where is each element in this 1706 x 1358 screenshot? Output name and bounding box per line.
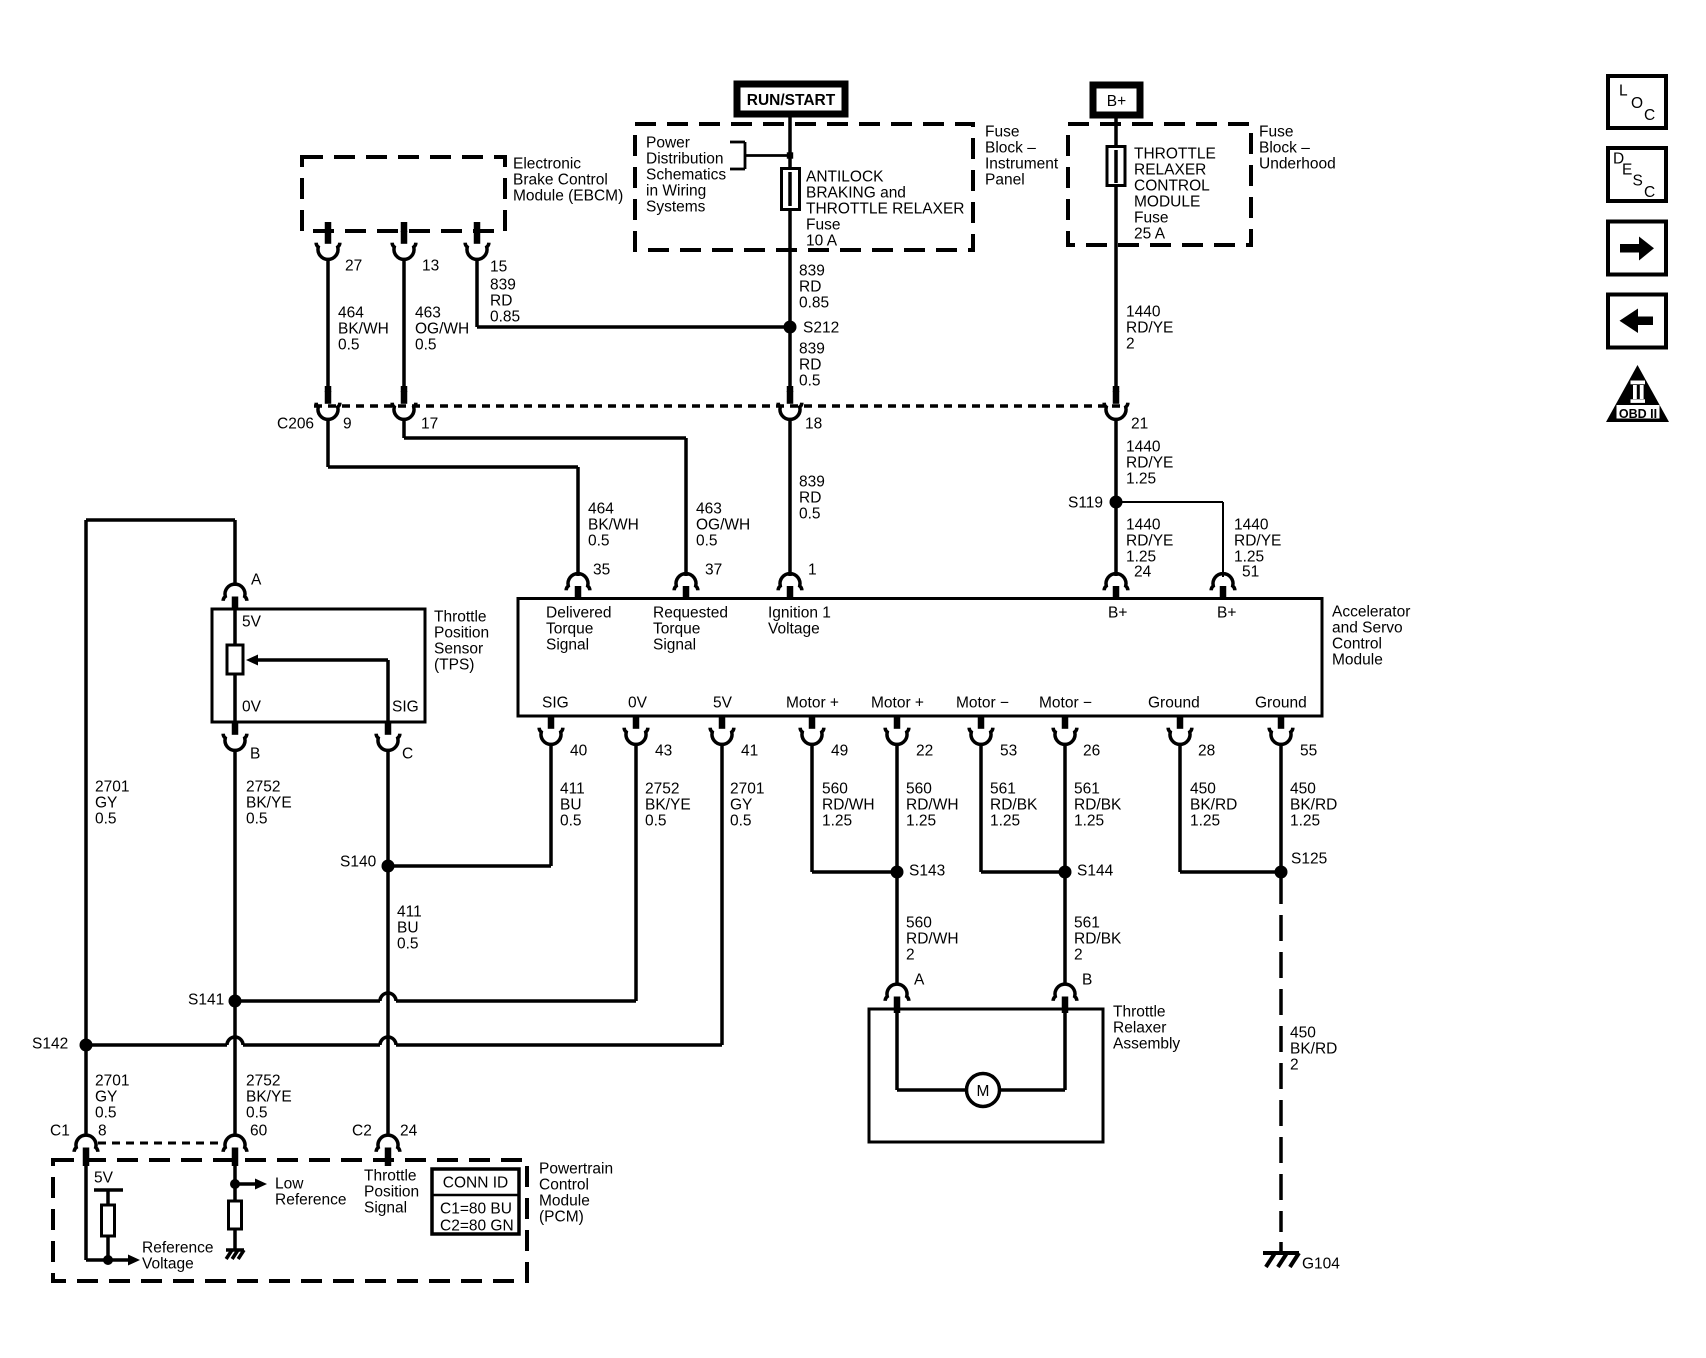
svg-text:560: 560 [822, 781, 848, 798]
module pin 41 connector [719, 716, 726, 729]
power symbol B+ (box) [1093, 85, 1140, 115]
wire 2752 BK/YE 0.5 pin43 to S141 [634, 744, 638, 1002]
svg-text:B: B [250, 746, 260, 763]
svg-text:1.25: 1.25 [822, 813, 852, 830]
svg-text:OG/WH: OG/WH [696, 517, 750, 534]
wire S142 to C1 [84, 1045, 88, 1134]
svg-text:0.5: 0.5 [645, 813, 667, 830]
svg-text:15: 15 [490, 259, 507, 276]
svg-text:35: 35 [593, 562, 610, 579]
svg-text:L: L [1619, 83, 1628, 100]
svg-text:13: 13 [422, 258, 439, 275]
svg-text:C2: C2 [352, 1123, 372, 1140]
svg-text:1.25: 1.25 [990, 813, 1020, 830]
svg-text:24: 24 [400, 1123, 418, 1140]
svg-text:49: 49 [831, 743, 848, 760]
Throttle Position Sensor (box) [212, 609, 425, 722]
svg-text:Sensor: Sensor [434, 641, 483, 658]
wire 560 RD/WH 1.25 pin22 to S143 [895, 744, 899, 873]
fuse F2 THROTTLE RELAXER CONTROL MODULE 25A [1107, 147, 1125, 186]
svg-text:(TPS): (TPS) [434, 657, 474, 674]
svg-text:Throttle: Throttle [364, 1168, 417, 1185]
splice S125 [1275, 866, 1288, 879]
svg-text:RD/BK: RD/BK [1074, 797, 1122, 814]
svg-text:RELAXER: RELAXER [1134, 162, 1206, 179]
module pin 26 connector [1062, 716, 1069, 729]
module pin 53 connector [978, 716, 985, 729]
wire S119 to module pin24 [1114, 502, 1118, 576]
svg-text:A: A [251, 572, 262, 589]
svg-text:51: 51 [1242, 564, 1259, 581]
power symbol RUN/START (box) [737, 84, 845, 114]
svg-text:1.25: 1.25 [906, 813, 936, 830]
svg-text:Panel: Panel [985, 172, 1025, 189]
svg-text:BK/YE: BK/YE [246, 1089, 292, 1106]
svg-text:53: 53 [1000, 743, 1017, 760]
svg-text:C1: C1 [50, 1123, 70, 1140]
svg-text:2752: 2752 [246, 779, 280, 796]
svg-text:S212: S212 [803, 320, 839, 337]
svg-text:37: 37 [705, 562, 722, 579]
svg-text:RD: RD [799, 490, 821, 507]
svg-text:40: 40 [570, 743, 588, 760]
C206 pin 9 connector [325, 386, 332, 392]
wire from C206-9 to module pin35 [326, 419, 330, 468]
wire 463 OG/WH 0.5 from EBCM pin13 [402, 259, 406, 392]
wire 1440 RD/YE 2 fuse to C206 [1114, 185, 1118, 391]
svg-text:450: 450 [1190, 781, 1216, 798]
svg-text:0V: 0V [628, 695, 648, 712]
svg-text:Motor +: Motor + [786, 695, 839, 712]
svg-text:BK/WH: BK/WH [338, 321, 389, 338]
svg-text:SIG: SIG [542, 695, 569, 712]
wire 561 RD/BK 2 S144 to relaxer pin B [1063, 872, 1067, 985]
svg-text:463: 463 [696, 501, 722, 518]
svg-text:RD/BK: RD/BK [990, 797, 1038, 814]
ground G104 [1263, 1251, 1299, 1255]
svg-text:Signal: Signal [653, 637, 696, 654]
svg-text:2: 2 [1290, 1057, 1299, 1074]
svg-text:25 A: 25 A [1134, 226, 1166, 243]
junction reference voltage [103, 1255, 113, 1265]
svg-text:24: 24 [1134, 564, 1152, 581]
svg-text:1.25: 1.25 [1290, 813, 1320, 830]
TPS wiper arrow [258, 658, 388, 662]
wire 561 RD/BK 1.25 pin26 to S144 [1063, 744, 1067, 873]
module pin 24 connector [1113, 586, 1120, 599]
wire 839 RD 0.85 from EBCM pin15 to S212 [475, 259, 479, 328]
svg-text:26: 26 [1083, 743, 1100, 760]
svg-text:Ground: Ground [1148, 695, 1200, 712]
svg-text:Electronic: Electronic [513, 156, 581, 173]
svg-text:55: 55 [1300, 743, 1317, 760]
svg-text:Reference: Reference [275, 1192, 347, 1209]
fuse block - underhood (dashed box) [1068, 124, 1251, 245]
svg-text:GY: GY [730, 797, 752, 814]
svg-text:1.25: 1.25 [1074, 813, 1104, 830]
wire 2701 GY 0.5 pin41 to S142 [720, 744, 724, 1046]
svg-text:839: 839 [799, 263, 825, 280]
wire 839 RD 0.85 fuse to S212 [788, 209, 792, 391]
connector C206 (dashed line) [314, 404, 1124, 408]
svg-text:10 A: 10 A [806, 233, 838, 250]
svg-text:41: 41 [741, 743, 758, 760]
svg-text:S140: S140 [340, 854, 377, 871]
junction low reference [230, 1179, 240, 1189]
svg-text:Motor −: Motor − [956, 695, 1009, 712]
EBCM pin 13 connector [401, 222, 408, 232]
svg-text:0.5: 0.5 [246, 811, 268, 828]
svg-text:0.85: 0.85 [799, 295, 829, 312]
svg-text:RD/WH: RD/WH [822, 797, 875, 814]
svg-text:C: C [402, 746, 413, 763]
svg-text:Ignition 1: Ignition 1 [768, 605, 831, 622]
svg-text:S: S [1633, 173, 1643, 190]
svg-text:RD: RD [490, 293, 512, 310]
svg-text:S141: S141 [188, 992, 224, 1009]
wire B+ to fuse [1114, 118, 1118, 147]
wire pin60 low reference [233, 1160, 237, 1184]
svg-text:839: 839 [490, 277, 516, 294]
svg-text:GY: GY [95, 1089, 117, 1106]
splice S144 [1059, 866, 1072, 879]
svg-text:S119: S119 [1068, 495, 1103, 512]
svg-text:Signal: Signal [364, 1200, 407, 1217]
wire 450 BK/RD 2 S125 to G104 (dashed) [1279, 878, 1283, 1232]
wire branch S119 to module pin51 [1116, 501, 1223, 503]
PCM 5V supply bar [94, 1188, 123, 1192]
svg-text:B+: B+ [1108, 605, 1127, 622]
svg-text:B: B [1082, 972, 1092, 989]
svg-text:8: 8 [98, 1123, 107, 1140]
svg-text:Delivered: Delivered [546, 605, 611, 622]
svg-text:1440: 1440 [1234, 517, 1269, 534]
fuse F1 ANTILOCK BRAKING and THROTTLE RELAXER 10A [782, 169, 800, 210]
svg-text:Control: Control [1332, 636, 1382, 653]
svg-text:RD/YE: RD/YE [1126, 455, 1173, 472]
svg-text:SIG: SIG [392, 699, 419, 716]
svg-text:BK/WH: BK/WH [588, 517, 639, 534]
svg-text:2752: 2752 [246, 1073, 280, 1090]
svg-text:5V: 5V [242, 614, 262, 631]
svg-text:Underhood: Underhood [1259, 156, 1336, 173]
svg-text:17: 17 [421, 416, 438, 433]
module pin 1 connector [787, 586, 794, 599]
svg-text:0.5: 0.5 [246, 1105, 268, 1122]
svg-text:0.5: 0.5 [730, 813, 752, 830]
svg-text:Voltage: Voltage [142, 1256, 194, 1273]
svg-text:1: 1 [808, 562, 817, 579]
svg-text:in Wiring: in Wiring [646, 183, 706, 200]
svg-text:BK/YE: BK/YE [645, 797, 691, 814]
svg-text:22: 22 [916, 743, 933, 760]
wire 450 BK/RD 1.25 pin55 to S125 [1279, 744, 1283, 873]
svg-text:S143: S143 [909, 863, 945, 880]
svg-text:S125: S125 [1291, 851, 1327, 868]
svg-text:C: C [1644, 107, 1655, 124]
svg-text:0.5: 0.5 [560, 813, 582, 830]
svg-text:Assembly: Assembly [1113, 1036, 1180, 1053]
svg-text:Requested: Requested [653, 605, 728, 622]
svg-text:1.25: 1.25 [1126, 471, 1156, 488]
svg-text:Relaxer: Relaxer [1113, 1020, 1166, 1037]
svg-text:2701: 2701 [95, 779, 129, 796]
svg-text:560: 560 [906, 781, 932, 798]
svg-text:1440: 1440 [1126, 304, 1161, 321]
svg-text:2: 2 [1126, 336, 1135, 353]
CONN ID table [432, 1169, 519, 1234]
svg-text:BRAKING and: BRAKING and [806, 185, 906, 202]
connector pin 60 [232, 1148, 239, 1161]
svg-text:MODULE: MODULE [1134, 194, 1200, 211]
svg-text:1440: 1440 [1126, 439, 1161, 456]
ground (PCM internal) [226, 1248, 244, 1252]
svg-text:0.5: 0.5 [338, 337, 360, 354]
svg-text:BK/RD: BK/RD [1190, 797, 1237, 814]
module pin 35 connector [575, 586, 582, 599]
svg-text:BK/YE: BK/YE [246, 795, 292, 812]
svg-text:839: 839 [799, 341, 825, 358]
module pin 43 connector [633, 716, 640, 729]
EBCM pin 27 connector [325, 222, 332, 232]
svg-text:450: 450 [1290, 781, 1316, 798]
svg-text:Position: Position [434, 625, 489, 642]
svg-text:839: 839 [799, 474, 825, 491]
svg-text:RD: RD [799, 357, 821, 374]
svg-text:Brake Control: Brake Control [513, 172, 608, 189]
wire motor to relaxer pin B [1000, 1088, 1066, 1092]
icon DESC [1608, 148, 1666, 201]
svg-text:43: 43 [655, 743, 672, 760]
svg-text:464: 464 [588, 501, 614, 518]
svg-text:BK/RD: BK/RD [1290, 797, 1337, 814]
svg-text:BU: BU [560, 797, 582, 814]
module pin 37 connector [683, 586, 690, 599]
svg-text:0.5: 0.5 [696, 533, 718, 550]
wire 560 RD/WH 1.25 pin49 to S143 [810, 744, 814, 873]
TPS potentiometer [233, 609, 237, 645]
bracket from power distribution note to wire [730, 141, 745, 144]
svg-text:B+: B+ [1217, 605, 1236, 622]
icon OBD II triangle [1606, 365, 1669, 422]
svg-text:C206: C206 [277, 416, 314, 433]
svg-text:RD/WH: RD/WH [906, 931, 959, 948]
svg-text:Instrument: Instrument [985, 156, 1059, 173]
resistor R2 (low reference) [233, 1184, 237, 1201]
svg-text:A: A [914, 972, 925, 989]
svg-text:2701: 2701 [95, 1073, 129, 1090]
wire 561 RD/BK 1.25 pin53 to S144 [979, 744, 983, 873]
svg-text:2: 2 [1074, 947, 1083, 964]
svg-text:0.85: 0.85 [490, 309, 520, 326]
wire RUN/START to fuse [788, 117, 792, 169]
motor M1 [967, 1074, 1000, 1107]
wire 450 BK/RD 1.25 pin28 to S125 [1178, 744, 1182, 873]
module pin 28 connector [1177, 716, 1184, 729]
icon back arrow [1608, 295, 1666, 348]
svg-text:0V: 0V [242, 699, 262, 716]
svg-text:BK/RD: BK/RD [1290, 1041, 1337, 1058]
svg-text:60: 60 [250, 1123, 268, 1140]
svg-text:560: 560 [906, 915, 932, 932]
svg-text:18: 18 [805, 416, 822, 433]
wire 1440 RD/YE 1.25 from C206-21 to S119 [1114, 419, 1118, 503]
svg-text:CONN ID: CONN ID [443, 1175, 508, 1192]
wire C1-8 reference voltage [84, 1160, 88, 1260]
svg-text:ANTILOCK: ANTILOCK [806, 169, 884, 186]
svg-text:M: M [977, 1083, 990, 1100]
svg-text:0.5: 0.5 [397, 936, 419, 953]
svg-text:0.5: 0.5 [799, 506, 821, 523]
svg-text:5V: 5V [713, 695, 733, 712]
svg-text:RD/WH: RD/WH [906, 797, 959, 814]
svg-text:Fuse: Fuse [1259, 124, 1293, 141]
svg-text:Powertrain: Powertrain [539, 1161, 613, 1178]
connector line C1 to 60 (dotted) [98, 1142, 224, 1145]
svg-text:0.5: 0.5 [415, 337, 437, 354]
svg-text:OG/WH: OG/WH [415, 321, 469, 338]
C206 pin 17 connector [401, 386, 408, 392]
splice S119 [1110, 496, 1123, 509]
svg-text:Torque: Torque [653, 621, 700, 638]
connector C2 pin 24 [385, 1148, 392, 1161]
wire relaxer pin A to motor [895, 1009, 899, 1090]
svg-text:Module: Module [1332, 652, 1383, 669]
svg-text:Reference: Reference [142, 1240, 214, 1257]
icon forward arrow [1608, 222, 1666, 275]
module pin 40 connector [548, 716, 555, 729]
svg-text:561: 561 [990, 781, 1016, 798]
svg-text:C2=80 GN: C2=80 GN [440, 1218, 514, 1235]
wire 411 BU 0.5 pin40 to S140 [549, 744, 553, 867]
C206 pin 21 connector [1113, 386, 1120, 392]
svg-text:GY: GY [95, 795, 117, 812]
svg-text:28: 28 [1198, 743, 1215, 760]
svg-text:(PCM): (PCM) [539, 1209, 584, 1226]
svg-text:E: E [1622, 162, 1632, 179]
icon LOC [1608, 76, 1666, 128]
svg-text:21: 21 [1131, 416, 1148, 433]
wire 839 RD 0.5 from C206-18 to module pin1 [788, 419, 792, 577]
svg-text:Module (EBCM): Module (EBCM) [513, 188, 623, 205]
svg-text:Signal: Signal [546, 637, 589, 654]
svg-text:O: O [1631, 95, 1643, 112]
TPS pin C connector [385, 722, 392, 735]
svg-text:Voltage: Voltage [768, 621, 820, 638]
EBCM module (dashed box) [302, 157, 505, 231]
svg-text:Control: Control [539, 1177, 589, 1194]
svg-text:Low: Low [275, 1176, 304, 1193]
svg-text:Fuse: Fuse [1134, 210, 1168, 227]
svg-text:561: 561 [1074, 781, 1100, 798]
svg-text:411: 411 [560, 781, 585, 798]
svg-text:Systems: Systems [646, 199, 706, 216]
svg-text:Ground: Ground [1255, 695, 1307, 712]
wire 464 BK/WH 0.5 from EBCM pin27 [326, 259, 330, 392]
svg-text:RD: RD [799, 279, 821, 296]
svg-text:Torque: Torque [546, 621, 593, 638]
svg-text:Power: Power [646, 135, 690, 152]
svg-text:5V: 5V [94, 1170, 114, 1187]
svg-text:RD/BK: RD/BK [1074, 931, 1122, 948]
svg-text:OBD II: OBD II [1619, 407, 1657, 421]
svg-text:Motor +: Motor + [871, 695, 924, 712]
svg-text:C: C [1644, 184, 1655, 201]
svg-text:RD/YE: RD/YE [1234, 533, 1281, 550]
svg-text:2752: 2752 [645, 781, 679, 798]
svg-text:463: 463 [415, 305, 441, 322]
svg-text:Throttle: Throttle [1113, 1004, 1166, 1021]
svg-text:Module: Module [539, 1193, 590, 1210]
svg-text:G104: G104 [1302, 1256, 1340, 1273]
wire 560 RD/WH 2 S143 to relaxer pin A [895, 872, 899, 985]
svg-text:Fuse: Fuse [985, 124, 1019, 141]
svg-text:Position: Position [364, 1184, 419, 1201]
module pin 49 connector [809, 716, 816, 729]
Accelerator and Servo Control Module (box) [518, 599, 1322, 717]
svg-text:0.5: 0.5 [95, 1105, 117, 1122]
svg-text:Distribution: Distribution [646, 151, 724, 168]
svg-text:THROTTLE RELAXER: THROTTLE RELAXER [806, 201, 964, 218]
svg-text:411: 411 [397, 904, 422, 921]
splice S140 [382, 860, 395, 873]
svg-text:Schematics: Schematics [646, 167, 726, 184]
EBCM pin 15 connector [474, 222, 481, 232]
svg-text:464: 464 [338, 305, 364, 322]
module pin 22 connector [894, 716, 901, 729]
splice S143 [891, 866, 904, 879]
Powertrain Control Module (dashed box) [53, 1160, 527, 1281]
svg-text:0.5: 0.5 [799, 373, 821, 390]
svg-text:27: 27 [345, 258, 362, 275]
svg-text:1440: 1440 [1126, 517, 1161, 534]
svg-text:RUN/START: RUN/START [747, 92, 836, 109]
connector C1 pin 8 [83, 1148, 90, 1161]
relaxer pin A connector [894, 997, 901, 1010]
svg-text:RD/YE: RD/YE [1126, 320, 1173, 337]
module pin 55 connector [1278, 716, 1285, 729]
svg-text:2: 2 [906, 947, 915, 964]
svg-text:Throttle: Throttle [434, 609, 487, 626]
svg-text:9: 9 [343, 416, 352, 433]
wire 411 BU 0.5 TPS-C down to C2 [386, 750, 390, 1134]
svg-text:Fuse: Fuse [806, 217, 840, 234]
C206 pin 18 connector [787, 386, 794, 392]
TPS pin A connector [232, 597, 239, 610]
svg-text:C1=80 BU: C1=80 BU [440, 1201, 512, 1218]
module pin 51 connector [1220, 586, 1227, 599]
svg-text:and Servo: and Servo [1332, 620, 1403, 637]
svg-text:1.25: 1.25 [1190, 813, 1220, 830]
wire 2752 BK/YE 0.5 TPS-B to S141 [233, 750, 237, 1134]
splice S141 [229, 995, 242, 1008]
svg-text:0.5: 0.5 [95, 811, 117, 828]
svg-text:Block –: Block – [1259, 140, 1310, 157]
svg-text:Accelerator: Accelerator [1332, 604, 1410, 621]
svg-text:S144: S144 [1077, 863, 1114, 880]
svg-text:BU: BU [397, 920, 419, 937]
svg-text:Block –: Block – [985, 140, 1036, 157]
svg-text:0.5: 0.5 [588, 533, 610, 550]
wire from C206-17 to module pin37 [402, 419, 406, 439]
svg-text:B+: B+ [1107, 93, 1126, 110]
relaxer pin B connector [1062, 997, 1069, 1010]
splice S142 [80, 1039, 93, 1052]
resistor R1 (reference) [102, 1205, 115, 1236]
splice S212 [784, 321, 797, 334]
svg-text:450: 450 [1290, 1025, 1316, 1042]
svg-text:RD/YE: RD/YE [1126, 533, 1173, 550]
